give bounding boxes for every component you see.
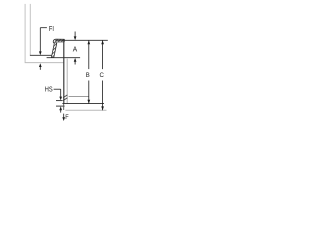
dim B: top arrow up	[87, 40, 90, 44]
top reference surface line	[55, 39, 108, 41]
svg-text:B: B	[86, 72, 91, 79]
dim HS: leader vertical + down arrow	[60, 89, 62, 97]
svg-text:A: A	[73, 44, 77, 53]
dim C: bottom arrow down	[101, 106, 104, 110]
dim FI: up arrow below gray face	[39, 63, 42, 67]
dim C: line with label break	[102, 40, 104, 69]
dim FI: down arrow to seat	[39, 51, 42, 55]
svg-text:F: F	[65, 114, 69, 121]
housing lower surface line B (gray)	[25, 62, 64, 64]
housing seat surface line A (dark)	[30, 54, 53, 56]
dim HS: leader horizontal	[54, 88, 61, 90]
clamp region hatch marks	[63, 95, 67, 98]
svg-text:FI: FI	[49, 25, 54, 33]
shaft end face (gray)	[65, 109, 106, 111]
shoulder line under seal foot	[47, 57, 81, 59]
housing band left vertical (gray contour)	[24, 4, 26, 63]
flange top stub left of sleeve	[56, 100, 63, 102]
dim F: down arrow	[63, 114, 65, 119]
shaft contour vertical (gray)	[66, 59, 68, 104]
dim A: top arrow (down, outside)	[74, 32, 76, 38]
sleeve stub down to shaft face	[63, 104, 65, 110]
dim FI: bracket	[40, 27, 47, 29]
svg-text:HS: HS	[45, 85, 53, 94]
dim B: bottom arrow down	[87, 100, 90, 104]
dim FI: vertical leader	[39, 28, 41, 52]
seal sleeve (vertical lip)	[63, 40, 65, 104]
dim B: line with label break	[88, 40, 90, 69]
dim C: top arrow up	[101, 40, 104, 44]
clamp bottom line (dark, long)	[62, 103, 104, 105]
T-bar lower face	[56, 105, 65, 107]
seal top flange + curl + strip (hatched)	[51, 39, 64, 57]
dim A: bottom arrow (up, outside)	[74, 58, 77, 62]
bottom flange upper face (gray, faint)	[69, 96, 89, 98]
dim HS: up arrow below	[59, 106, 62, 110]
svg-text:C: C	[100, 72, 105, 79]
